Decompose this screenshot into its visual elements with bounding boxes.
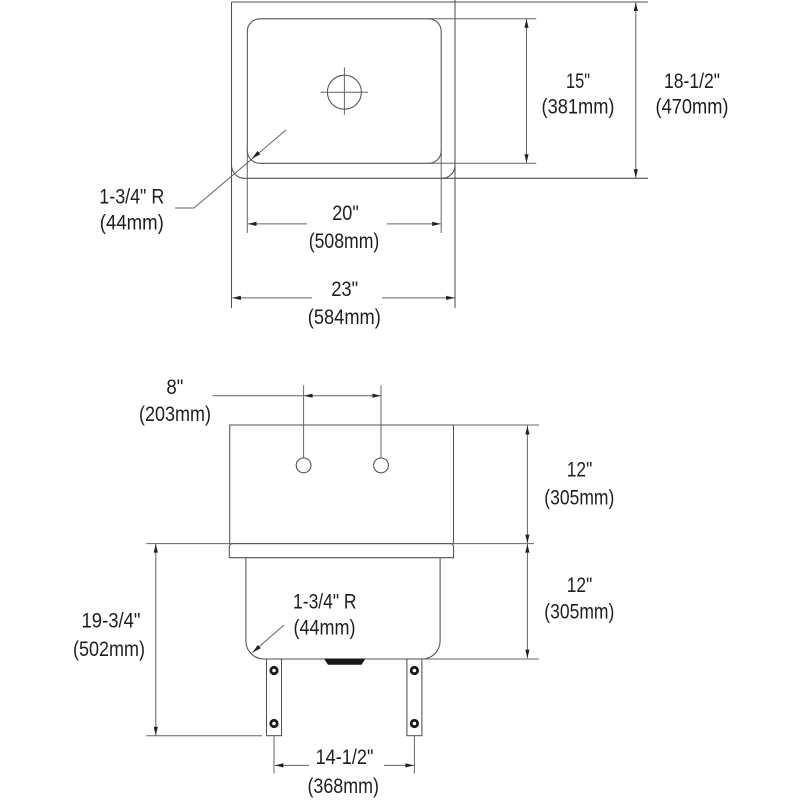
faucet hole right: [374, 458, 389, 473]
outer rim top edge + 18-1/2 top extension: [232, 1, 649, 3]
19-3/4in label: [73, 609, 145, 661]
svg-text:20": 20": [332, 201, 359, 225]
backsplash top extension to 12in dim: [454, 424, 540, 426]
14-1/2in dimension line: [275, 763, 414, 767]
bowl (inner rounded rect): [247, 19, 441, 164]
svg-text:(584mm): (584mm): [308, 305, 381, 329]
rim slab: [229, 544, 453, 558]
svg-text:(305mm): (305mm): [544, 485, 614, 509]
backsplash outline: [230, 425, 454, 544]
svg-text:19-3/4": 19-3/4": [82, 609, 141, 633]
corner radius leader (top view): [175, 130, 286, 208]
drain crosshair horizontal: [320, 91, 368, 93]
svg-text:1-3/4" R: 1-3/4" R: [293, 590, 357, 614]
bowl left 20in extension: [246, 150, 248, 233]
bowl right 20in extension: [440, 150, 442, 233]
svg-text:(203mm): (203mm): [139, 402, 211, 426]
8in label: [139, 375, 211, 426]
svg-text:8": 8": [166, 375, 183, 399]
bolt left upper: [269, 666, 278, 675]
12in lower dimension line: [525, 544, 529, 658]
svg-text:(44mm): (44mm): [100, 211, 164, 235]
svg-text:12": 12": [567, 458, 593, 482]
left leg center extension: [273, 736, 275, 774]
faucet hole left: [296, 458, 311, 473]
right leg center extension: [413, 736, 415, 774]
drain circle: [327, 75, 361, 109]
outer rim bottom edge + 18-1/2 bottom extension: [245, 177, 649, 179]
12in lower label: [544, 573, 614, 623]
outer rim right edge + 23in right extension: [454, 0, 456, 308]
bolt right lower: [410, 719, 419, 728]
bowl front outline: [246, 558, 440, 659]
faucet hole right extension: [380, 386, 382, 459]
svg-text:14-1/2": 14-1/2": [316, 745, 374, 769]
18-1/2in dimension line: [634, 2, 638, 178]
8in dimension line: [213, 394, 381, 398]
bowl bottom extension to 12in dim: [422, 658, 539, 660]
drain (front view): [324, 659, 366, 665]
svg-text:(381mm): (381mm): [542, 95, 615, 119]
outer rim bottom-left corner: [232, 165, 245, 178]
rim level long extension line: [146, 543, 534, 545]
svg-text:(44mm): (44mm): [294, 616, 356, 640]
15in label: [542, 69, 615, 119]
corner radius label (top view): [99, 184, 164, 234]
svg-text:(368mm): (368mm): [307, 774, 379, 798]
18-1/2in label: [656, 69, 729, 119]
bolt right upper: [410, 666, 419, 675]
svg-text:(470mm): (470mm): [656, 95, 729, 119]
svg-text:(508mm): (508mm): [309, 229, 380, 253]
bolt left lower: [269, 719, 278, 728]
outer rim bottom-right corner: [442, 165, 455, 178]
23in dimension line: [232, 296, 454, 300]
svg-text:23": 23": [331, 277, 358, 301]
right leg: [407, 659, 422, 736]
drain crosshair vertical: [343, 67, 345, 114]
corner radius label (front view): [293, 590, 357, 640]
20in label: [309, 201, 380, 253]
12in upper dimension line: [525, 426, 529, 544]
14-1/2in label: [307, 745, 379, 798]
svg-text:18-1/2": 18-1/2": [664, 69, 720, 93]
19-3/4in dimension line: [154, 544, 158, 736]
20in dimension line: [248, 222, 441, 226]
15in dimension line: [524, 19, 528, 164]
svg-text:1-3/4" R: 1-3/4" R: [99, 184, 164, 208]
outer rim left edge + 23in left extension: [231, 2, 233, 308]
bowl bottom edge 15in bottom extension: [428, 162, 536, 164]
svg-text:15": 15": [566, 69, 590, 93]
svg-text:12": 12": [567, 573, 593, 597]
svg-text:(502mm): (502mm): [73, 637, 145, 661]
faucet hole left extension: [303, 386, 305, 459]
left leg: [267, 659, 282, 736]
leg bottom extension line: [146, 735, 262, 737]
12in upper label: [544, 458, 614, 510]
bowl top edge 15in top extension: [428, 18, 536, 20]
corner radius leader (front view): [253, 625, 285, 653]
svg-text:(305mm): (305mm): [544, 599, 614, 623]
23in label: [308, 277, 381, 329]
